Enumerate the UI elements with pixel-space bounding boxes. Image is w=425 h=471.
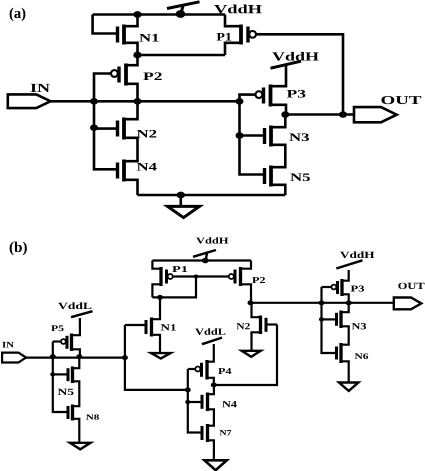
transistor P4 (205, 360, 208, 380)
node ground rail (177, 192, 185, 199)
transistor P2 (b) (239, 267, 242, 286)
power VddL symbol above P4 (202, 338, 222, 345)
wire N3 gate lead (240, 134, 265, 137)
node P1 drain / N1 drain (157, 295, 163, 300)
label P4 (218, 368, 231, 374)
wire P2 gate to IN node (94, 74, 108, 102)
node IN / P2 gate (90, 98, 98, 105)
wire P3/N3/N6 gate bus (322, 287, 337, 353)
transistor N1 (122, 25, 126, 45)
label N1 (b) (161, 324, 176, 330)
node IN / N1 gate tap (122, 355, 128, 360)
label VddH (b) top (196, 237, 228, 243)
ground under N2 (b) (242, 351, 261, 357)
label N8 (86, 414, 99, 419)
wire N5/N8 gate bus (53, 357, 67, 412)
wire IN line (b) (26, 357, 125, 359)
wire N2 gate lead (94, 127, 118, 130)
wire N1 gate-drain loop (93, 15, 118, 34)
node N4 gate (185, 400, 190, 404)
label P1 (217, 33, 232, 41)
transistor N5 (b) (71, 367, 74, 384)
node N3 gate (236, 132, 244, 139)
label N5 (b) (58, 389, 74, 395)
label (b) (10, 242, 27, 256)
label P5 (51, 325, 63, 331)
node gate bus / input tap (185, 387, 191, 392)
label N1 (139, 34, 158, 42)
node IN / P5 drain (76, 354, 82, 359)
label P3 (287, 90, 306, 98)
label N5 (290, 173, 310, 181)
transistor P3 (b) (340, 279, 343, 296)
label N4 (137, 163, 157, 171)
wire intermediate rail (N1/P1 sources) (138, 54, 226, 57)
transistor N3 (b) (339, 311, 342, 329)
node gate tap (194, 275, 199, 279)
transistor N8 (71, 405, 74, 421)
node on mid rail (133, 52, 141, 59)
wire right gate bus (P3,N3,N5) (240, 101, 265, 174)
label P2 (143, 72, 161, 80)
power VddH symbol (a) top (176, 10, 186, 18)
transistor N2 (b) (259, 316, 262, 335)
wire N5 gate lead (53, 373, 67, 375)
transistor N6 (339, 343, 342, 363)
node IN line / right gate bus (236, 98, 244, 105)
ground under N1 (b) (151, 353, 171, 358)
wire N2 gate to P4 drain (214, 325, 277, 386)
wire P1 gate to OUT node (256, 34, 343, 114)
wire P2 drain to OUT line (b) (251, 302, 395, 304)
label OUT (a) (381, 96, 421, 104)
node IN / P5 gate bus (50, 354, 56, 359)
port IN (b) (2, 353, 26, 363)
wire IN node to gate bus (125, 358, 188, 390)
transistor P5 (70, 334, 73, 352)
label IN (a) (31, 84, 50, 92)
wire top VddH rail (93, 13, 225, 16)
node P2 drain / N2 drain (248, 300, 254, 305)
wire P3 gate tap (240, 95, 249, 102)
transistor N3 (269, 126, 273, 147)
node N2 gate (90, 124, 98, 131)
ground (a) (180, 195, 183, 206)
wire P5 gate to IN line (52, 342, 54, 357)
transistor P2 (124, 64, 128, 86)
label N4 (b) (222, 401, 237, 407)
node P1 gate / OUT (339, 111, 347, 118)
transistor N5 (269, 166, 273, 187)
node P3 drain / N3 drain / OUT (281, 111, 289, 118)
transistor P1 (239, 25, 243, 45)
label OUT (b) (398, 283, 424, 289)
transistor N4 (206, 393, 209, 412)
transistor N4 (122, 160, 126, 182)
label P3 (b) (351, 286, 364, 292)
label P2 (b) (252, 277, 265, 283)
transistor N1 (b) (150, 318, 153, 337)
node N1 drain / top rail (133, 11, 141, 18)
label VddH above P3 (272, 52, 319, 61)
label VddH (a) top (214, 5, 261, 14)
label N7 (220, 430, 232, 435)
label IN (b) (2, 342, 13, 348)
ground under N8 (70, 443, 91, 450)
wire left gate bus (N2,N4) (94, 101, 118, 169)
wire gate tap to P1 drain (152, 277, 196, 298)
label (a) (10, 8, 26, 22)
port OUT (b) (394, 298, 422, 310)
label P1 (b) (172, 266, 187, 272)
wire N3 gate lead (322, 318, 337, 320)
label VddL (left) (58, 302, 91, 309)
transistor P1 (b) (159, 267, 162, 286)
transistor N7 (206, 424, 209, 442)
wire OUT line (a) (285, 113, 354, 116)
ground under N7 (205, 460, 227, 470)
label N3 (b) (352, 323, 366, 329)
label VddL (center) (195, 328, 225, 335)
port IN (a) (8, 94, 51, 108)
wire P1-P2 common gate (174, 275, 228, 277)
label N2 (b) (237, 323, 250, 329)
power VddL symbol above P5 (71, 311, 93, 317)
wire N1 gate to IN bus (124, 325, 126, 358)
label VddH (right) (340, 251, 374, 258)
node N5 gate (50, 372, 55, 376)
power VddH symbol above P3 (271, 61, 302, 68)
wire P4/N4/N7 gate bus (188, 369, 202, 433)
ground under N6 (339, 383, 359, 391)
label N2 (137, 130, 156, 138)
power VddH symbol above P3 (b) (336, 260, 362, 268)
wire N4 gate lead (188, 401, 202, 403)
node N3 gate (319, 317, 324, 321)
transistor N2 (122, 118, 126, 140)
power VddH symbol (b) top (202, 258, 209, 264)
wire IN line (51, 100, 240, 103)
node P3 drain / N3 drain (b) (346, 300, 352, 305)
label N3 (289, 133, 309, 141)
transistor P3 (269, 85, 273, 107)
port OUT (a) (354, 107, 397, 122)
node gate bus / OUT line (319, 300, 325, 305)
node IN / P2 drain / N2 drain (134, 98, 142, 105)
node P4 drain (211, 383, 217, 388)
wire ground rail (a) (138, 194, 286, 197)
label N6 (355, 353, 368, 359)
wire top VddH rail (b) (152, 259, 251, 261)
